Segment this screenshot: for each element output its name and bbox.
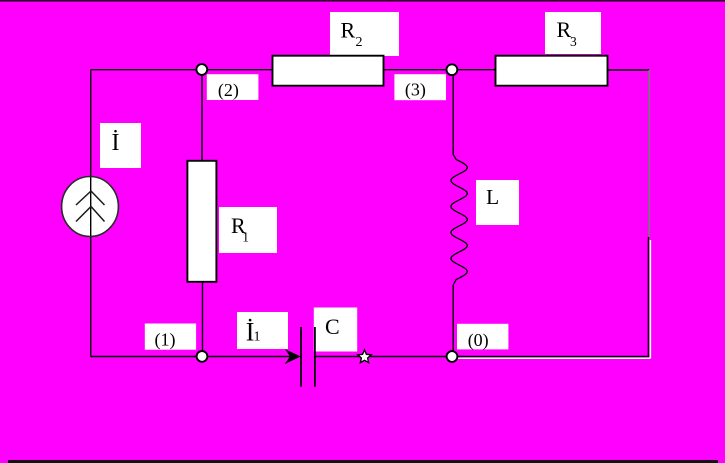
label box I: [100, 123, 141, 168]
svg-text:R: R: [341, 18, 356, 43]
wire right vertical lower: [647, 237, 649, 357]
star marker: [358, 350, 371, 363]
capacitor C left plate: [300, 327, 302, 387]
node 2: [196, 64, 207, 75]
label box I1: [237, 312, 288, 349]
wire node 2 to R1: [201, 70, 203, 161]
wire bottom from capacitor to node 0: [315, 356, 452, 358]
wire top from R3 to right corner: [608, 69, 649, 71]
wire left vertical above source: [90, 70, 92, 177]
resistor R3: [496, 56, 608, 86]
svg-text:1: 1: [254, 330, 261, 345]
svg-text:(2): (2): [218, 80, 239, 101]
wire right vertical lower white highlight: [455, 240, 650, 358]
label box R3: [545, 12, 601, 54]
resistor R2: [273, 56, 384, 86]
wire left vertical below source: [90, 236, 92, 357]
wire top from R2 to R3: [384, 69, 495, 71]
label box node 3: [394, 74, 446, 100]
current source chevron lower: [76, 207, 105, 222]
svg-text:3: 3: [570, 34, 577, 49]
wire right vertical upper (gray): [648, 70, 650, 237]
svg-text:(1): (1): [155, 330, 176, 351]
current source vertical line: [90, 177, 92, 236]
wire node 3 to L: [452, 70, 454, 155]
label box C: [314, 308, 357, 352]
capacitor C right plate: [314, 327, 316, 387]
label box R2: [330, 12, 399, 56]
svg-text:C: C: [325, 314, 340, 339]
wire bottom from left corner to arrow: [91, 356, 290, 358]
current arrow I1: [286, 350, 299, 363]
current source chevron upper: [76, 191, 105, 205]
label box L: [476, 180, 519, 225]
label box node 2: [207, 74, 259, 100]
wire R1 to node 1: [202, 282, 204, 357]
svg-text:1: 1: [242, 230, 249, 245]
current source I1 circle: [62, 177, 119, 237]
wire L to node 0: [452, 285, 454, 357]
svg-text:2: 2: [356, 35, 363, 50]
node 3: [447, 64, 458, 75]
inductor L coil: [451, 155, 468, 286]
resistor R1: [187, 161, 216, 282]
node 1: [197, 351, 208, 362]
svg-text:L: L: [486, 185, 499, 209]
svg-text:(0): (0): [468, 330, 489, 351]
wire top from source to R2: [91, 69, 272, 71]
label box R1: [219, 207, 277, 253]
svg-text:İ: İ: [112, 130, 120, 156]
svg-text:(3): (3): [405, 80, 426, 101]
label box node 1: [145, 324, 196, 350]
node 0: [447, 351, 458, 362]
wire bottom from node 0 to right corner: [452, 356, 649, 358]
label box node 0: [457, 324, 508, 350]
